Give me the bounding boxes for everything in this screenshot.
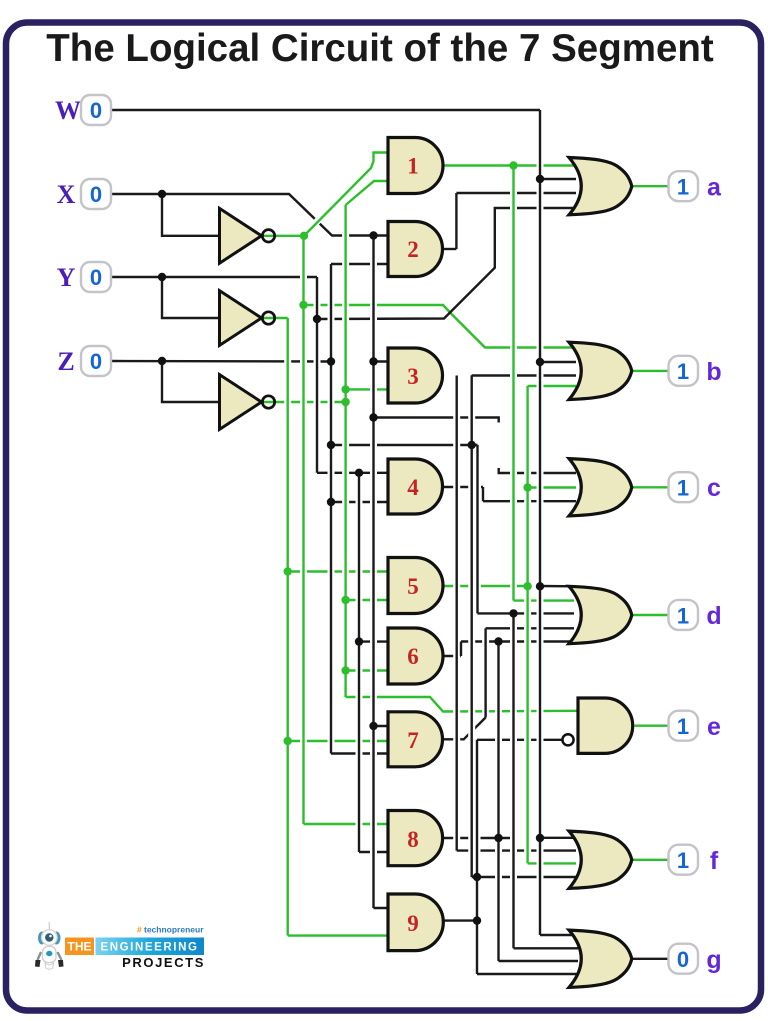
gatenums [407,154,419,937]
node AND5 riser at OR-c input 2 (green) [523,483,531,491]
vcasings [288,115,540,969]
node W at OR-d input 1 [536,582,544,590]
wire OR-c input 2 stub (AND5 riser) [528,486,576,488]
wire X main: input X, diagonal down, into AND2 input 1 [110,194,390,236]
wire z' from NOT3 bubble to vertical [262,401,346,403]
wire OR-g output to box g [632,958,668,960]
wire bus tap y=417.5 to OR-c input 1 [374,418,577,474]
or-gate d [569,586,632,643]
wire AND5 input 1 stub (y') [288,570,390,572]
svg-text:0: 0 [90,182,102,207]
output c box value 1 [669,472,699,502]
svg-text:#: # [137,925,142,935]
wire W main: input W to top-right corner [110,109,540,111]
wire W vertical drop x=540 [539,110,541,935]
svg-text:0: 0 [677,947,689,972]
node AND6 run at OR-g drop [494,637,502,645]
wire NAND-e input 2 to bubble [477,739,562,741]
wire AND3 output drop x=456.7 [456,376,458,851]
input Y box value 0 [81,262,111,292]
io [55,95,722,974]
wire AND5 net vertical x=527.6 (green) [526,386,528,863]
wire OR-a output to box a [632,185,668,187]
svg-text:0: 0 [90,98,102,123]
wire Y tap to OR-a input 4: horizontal, diagonal up, riser [317,208,576,319]
svg-text:1: 1 [677,175,689,200]
node z' at AND6 input 2 (green) [341,666,349,674]
wire z' vertical bus x=345.6 [344,205,346,697]
svg-text:Y: Y [57,263,76,292]
svg-text:ENGINEERING: ENGINEERING [100,942,198,954]
wire Y main: input Y to vertical riser [110,276,317,278]
svg-text:1: 1 [677,603,689,628]
wire AND2 input 2 stub (Z via riser) [331,263,390,265]
wire AND5 output to riser junction [443,585,528,587]
svg-text:5: 5 [407,574,419,599]
node Z tap y=445 [327,441,335,449]
output d box value 1 [669,600,699,630]
wire AND4 jog x=483 [482,487,484,501]
wire AND7 input 1 stub [374,725,391,727]
logo ENGINEERING box [96,938,205,956]
node x' tap (green) [299,301,307,309]
node Y tap [313,315,321,323]
wire Z tap drop to OR-g x=513.5 (black) [512,613,514,948]
wire Z tap drop x=477.5 [476,445,478,613]
wire Z vertical riser x=331 [330,264,332,754]
wire AND9 input 2 (y' corner) [288,934,390,936]
wire AND3 input 1 stub from bus [374,360,391,362]
svg-text:Z: Z [57,347,74,376]
node AND7 input 1 [369,722,377,730]
and-gate 1 [388,138,443,194]
wire Z tap at y=445 to riser of OR-d [331,444,478,446]
wire OR-b input 4 horizontal from riser x=471.7 [472,374,576,376]
wire y' from NOT2 bubble [262,317,288,319]
wire AND9 input 1 (corner) [374,907,391,909]
svg-text:2: 2 [407,237,419,262]
and-gate 5 [388,558,443,614]
wire z' jog around AND7 into NAND-e input 1 [346,697,578,712]
wire AND6 output jog up [443,655,461,657]
wire AND7 input 3 (Z riser corner) [331,752,390,754]
svg-text:X: X [57,180,76,209]
wire OR-b output to box b [632,370,668,372]
svg-text:1: 1 [677,848,689,873]
input Z box value 0 [81,346,111,376]
node Z drop at OR-d input 3 [509,609,517,617]
svg-text:1: 1 [677,476,689,501]
hwires [110,110,668,974]
not-gate NOT3 (Z) [220,375,262,430]
wire z' diagonal up to AND1 input 2 [346,181,390,205]
svg-text:0: 0 [90,265,102,290]
node y' at AND7 input 2 (green) [284,737,292,745]
wire OR-d output to box d [632,614,668,616]
gates [220,138,633,988]
wire W stub to OR-f input 1 [540,837,576,839]
or-gate a [569,158,632,215]
or-gate c [569,459,632,516]
wire OR-g input 1 (W corner) [540,934,578,936]
wire Y vertical riser x=317 [316,277,318,473]
svg-text:d: d [706,602,721,630]
wire OR-c output to box c [632,486,668,488]
or-gate f [569,831,632,888]
wire AND7 riser x=485.6 [484,628,486,717]
wire X branch to NOT1 [162,194,219,236]
wire AND6 jog riser x=461 [460,642,462,657]
wire AND3 input 2 stub (z') [346,388,390,390]
wire AND4 input 1 (Y riser corner) [317,472,390,474]
wire X/Z vertical bus x=373.5 [372,236,374,909]
or-gate g [569,930,632,987]
wire AND5 input 2 stub (z') [346,599,390,601]
vwires [288,110,540,974]
wire OR-c input 3 horizontal [483,500,576,502]
node AND4 input 2 [327,498,335,506]
wire Z main: input Z to riser x=331 [110,360,331,363]
node X branch [158,190,166,198]
wire OR-g input 2 (Z riser corner) [514,947,579,949]
wire AND4 output jog into OR-c input 3 [443,486,483,488]
wire OR-a input 3 horizontal [456,192,576,194]
node Z at riser x=331 [327,357,335,365]
svg-text:7: 7 [407,728,419,753]
and-gate 7 [388,712,443,767]
logo [35,922,205,970]
wire OR-d input 3 (Z riser corner) [478,612,575,614]
svg-text:9: 9 [407,911,419,936]
svg-text:b: b [706,358,721,386]
svg-text:6: 6 [407,644,419,669]
svg-text:e: e [707,713,721,741]
wire Y branch to NOT2 [162,277,219,318]
node AND5 output tap (green) [523,582,531,590]
wire OR-g input 4 (AND9 riser corner) [477,973,578,975]
wire Z branch to NOT3 [162,361,219,402]
svg-text:THE: THE [68,940,92,954]
svg-text:1: 1 [677,714,689,739]
svg-text:a: a [707,174,722,202]
wire W tap to OR-b input 2 [540,361,576,363]
node x' junction (green) [300,232,308,240]
svg-text:f: f [710,847,719,875]
wire x' vertical bus x=303.5 [302,236,304,824]
node bus tap y=417.5 [369,413,377,421]
and-gate 6 [388,628,443,684]
node X at AND2 input [369,231,377,239]
node AND6 input 1 [355,637,363,645]
wire y' vertical bus x=287.7 [287,318,289,936]
output f box value 1 [669,845,699,875]
svg-text:W: W [55,96,81,125]
wire AND8 output run [443,837,514,839]
wire AND1 output drop x=513.5 (green) [512,166,514,601]
wire AND2 output, up, into OR-a input 3 [443,248,456,250]
wire AND9 output [443,919,477,921]
output g box value 0 [669,944,699,974]
svg-text:PROJECTS: PROJECTS [122,955,205,970]
wire Y lower riser x=359 [358,473,360,852]
wire AND8 input 1 (x' corner) [304,823,391,825]
svg-text:4: 4 [407,475,419,500]
svg-text:technopreneur: technopreneur [144,925,204,935]
svg-text:1: 1 [407,154,419,179]
node y' at AND5 input 1 (green) [284,567,292,575]
wire AND4 input 2 stub (Z) [331,501,390,503]
logo THE box [65,938,94,956]
wire OR-f input 3 (AND5 riser corner) [528,862,576,864]
wire AND6 output run at y=641.5 [461,640,570,642]
node AND9 output [473,916,481,924]
wire AND1 output to OR-a input 1 [443,164,576,166]
node AND1 output tap (green) [509,161,517,169]
wire NAND-e output to box e [635,725,669,727]
wire x' diagonal up to AND1 input 1 [310,172,366,229]
wire OR-b input 3 (AND5 riser corner) [528,385,576,387]
wire OR-f input 2 (AND3 riser corner) [457,849,576,851]
node z' at AND5 input 2 (green) [341,596,349,604]
wire OR-b input at y=375.5 from long riser [471,375,473,877]
output a box value 1 [669,171,699,201]
wire OR-d input 4 (AND7 riser corner) [486,627,574,629]
svg-text:1: 1 [677,359,689,384]
wire OR-g input 3 (AND6 riser corner) [499,960,579,962]
and-gate 2 [388,222,443,277]
wire OR-d input 2 (AND1 riser corner) [514,599,575,601]
and-gate 8 [388,811,443,866]
node W at OR-f input 1 [536,834,544,842]
input W box value 0 [81,95,111,125]
wire AND6 input 2 stub (z') [346,669,390,671]
wire AND6 input 1 stub (Y) [359,640,390,642]
wire AND6 to OR-g drop x=498.5 [497,642,499,962]
output b box value 1 [669,356,699,386]
nand-gate e (AND with input bubble) [578,698,633,753]
wire AND2 output riser x=456.4 [455,193,457,249]
node AND4 input 1 [355,469,363,477]
and-gate 4 [388,459,443,514]
logo robot icon [35,922,64,969]
and-gate 9 [388,894,443,951]
node Z tap at riser x=471.7 [468,441,476,449]
node W to OR-b [536,358,544,366]
svg-text:g: g [706,946,721,974]
node Z branch [158,357,166,365]
wire AND7 input 2 stub (y') [288,740,390,742]
wire W stub to OR-d input 1 [540,585,574,588]
wire AND8 input 2 (Y riser corner) [359,851,390,853]
svg-text:3: 3 [407,364,419,389]
or-gate b [569,342,632,399]
wire AND9 net vertical x=477 [476,740,478,974]
svg-text:The Logical Circuit of the 7 S: The Logical Circuit of the 7 Segment [46,27,714,70]
svg-text:8: 8 [407,827,419,852]
node z' at AND3 input 2 (green) [341,385,349,393]
and-gate 3 [388,348,443,403]
node AND9 riser at OR-f input 4 [473,873,481,881]
wire AND7 output diagonal up to riser [443,718,486,740]
node AND8 output at AND6 drop [494,834,502,842]
node Z at bus x=373.5 [369,357,377,365]
wire x' tap to OR-b: horizontal then diagonal [304,305,576,348]
wire x' from NOT1 bubble to junction [262,235,304,237]
node z' at NOT3 line (green) [341,398,349,406]
output e box value 1 [669,711,699,741]
input X box value 0 [81,179,111,209]
wire OR-f output to box f [632,859,668,861]
node W to OR-a [536,175,544,183]
node Y branch [158,273,166,281]
not-gate NOT1 (X) [220,208,262,263]
not-gate NOT2 (Y) [220,291,262,346]
svg-text:0: 0 [90,349,102,374]
wire W tap to OR-a input 2 [540,178,576,180]
svg-text:c: c [707,474,721,502]
wire OR-f input 4 horizontal [472,876,576,878]
